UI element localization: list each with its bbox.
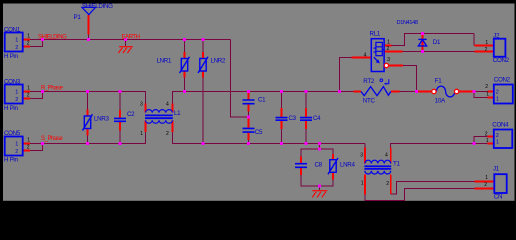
connector CON4 box xyxy=(494,130,513,149)
junction C8 rail bottom xyxy=(318,185,321,188)
junction LNR3 bottom xyxy=(86,142,89,145)
wire C4 top lead xyxy=(305,92,307,109)
pin NTC right stub xyxy=(391,91,400,93)
svg-text:10A: 10A xyxy=(435,98,446,105)
wire relay pin3 to fuse net xyxy=(403,66,416,92)
pin CON4 stubs xyxy=(488,137,494,144)
svg-text:3: 3 xyxy=(140,101,143,107)
svg-text:3: 3 xyxy=(360,152,363,158)
svg-text:2: 2 xyxy=(386,181,389,187)
thermistor RT2 temperature mark xyxy=(380,79,389,84)
junction CON5 xyxy=(41,142,44,145)
svg-text:H Pin: H Pin xyxy=(4,105,18,112)
relay RL1 switch arrow xyxy=(374,57,379,62)
junction C1/C5 midpoint xyxy=(247,115,250,118)
pin CON1-2 xyxy=(23,46,30,48)
diode D1 xyxy=(418,39,426,46)
svg-text:J1: J1 xyxy=(493,166,500,173)
relay RL1 coil xyxy=(374,42,385,55)
junction relay drop xyxy=(338,90,341,93)
svg-text:2: 2 xyxy=(485,47,488,53)
svg-text:C2: C2 xyxy=(127,111,135,118)
pin C1 stubs xyxy=(248,93,250,112)
svg-text:1: 1 xyxy=(485,175,488,181)
svg-text:2: 2 xyxy=(485,84,488,90)
wire LNR2 bottom lead crossing R_Phase xyxy=(202,78,204,143)
svg-text:T1: T1 xyxy=(393,161,400,168)
wire L1 out top xyxy=(173,92,354,104)
junction C3 top xyxy=(280,90,283,93)
inductor L1 core lines xyxy=(145,115,173,118)
junction LNR3 top xyxy=(86,90,89,93)
wire top rail down to J2 pin1 xyxy=(473,34,475,46)
wire LNR1 top lead xyxy=(184,40,186,53)
wire T1 top left lead xyxy=(364,144,366,148)
junction LNR1 top xyxy=(183,38,186,41)
earth symbol bottom xyxy=(312,191,327,198)
pin CON5-2 xyxy=(23,150,30,152)
junction C2 bottom xyxy=(119,142,122,145)
svg-text:CON2: CON2 xyxy=(493,57,510,64)
wire T1 top right to CON4 xyxy=(391,144,474,148)
junction CON4 loop xyxy=(473,142,476,145)
pin T1 bottom stubs xyxy=(365,175,391,195)
svg-text:1: 1 xyxy=(15,90,18,96)
svg-text:C1: C1 xyxy=(258,97,266,104)
wire EARTH stub xyxy=(125,40,127,47)
wire LNR3 top lead xyxy=(87,92,89,110)
junction CON3 xyxy=(41,90,44,93)
svg-text:CON4: CON4 xyxy=(492,122,509,129)
varistor LNR1 xyxy=(180,57,190,73)
relay RL1 arrow head xyxy=(376,60,380,64)
svg-text:RL1: RL1 xyxy=(370,31,381,38)
svg-text:1: 1 xyxy=(27,86,30,92)
pin RL1-4 stub xyxy=(352,57,372,59)
svg-text:1: 1 xyxy=(496,140,499,146)
svg-text:S_Phase: S_Phase xyxy=(41,136,63,142)
junction earth tap xyxy=(124,38,127,41)
pin CON3-1 xyxy=(23,91,30,93)
capacitor C8 xyxy=(295,164,307,168)
svg-text:2: 2 xyxy=(484,182,487,188)
wire NTC to fuse xyxy=(400,91,417,93)
junction C8 rail top xyxy=(318,148,321,151)
svg-text:L1: L1 xyxy=(174,110,181,117)
wire C8 branch drop xyxy=(319,144,321,150)
inductor L1 common-mode choke windings xyxy=(146,110,173,124)
svg-text:SHIELDING: SHIELDING xyxy=(38,35,67,41)
wire T1 bottom right staircase to J1 pin1 xyxy=(391,182,475,194)
svg-text:D1N4148: D1N4148 xyxy=(397,20,418,26)
svg-text:C5: C5 xyxy=(255,129,263,136)
pin D1 lead xyxy=(422,34,424,52)
svg-text:H Pin: H Pin xyxy=(4,157,18,164)
pin LNR4 stubs xyxy=(332,154,334,180)
svg-text:R_Phase: R_Phase xyxy=(41,86,64,92)
wire C1 mid lead xyxy=(248,112,250,118)
pin CON5-1 xyxy=(23,143,30,145)
connector J1 xyxy=(494,174,506,193)
svg-text:CON2: CON2 xyxy=(494,76,511,83)
transformer T1 core lines xyxy=(364,166,391,169)
junction P1/shield xyxy=(87,38,90,41)
junction LNR1 bottom xyxy=(183,90,186,93)
svg-text:2: 2 xyxy=(15,97,18,103)
pin LNR3 stubs xyxy=(87,110,89,136)
svg-text:1: 1 xyxy=(496,97,499,103)
wire R_Phase line to L1 xyxy=(43,92,146,104)
junction LNR2 bottom xyxy=(202,142,205,145)
wire C8/LNR4 bottom rail xyxy=(301,175,333,186)
wire LNR1 bottom lead xyxy=(184,78,186,92)
pin LNR2 stubs xyxy=(202,52,204,78)
svg-text:2: 2 xyxy=(485,132,488,138)
pin C5 stubs xyxy=(248,118,250,140)
pin C4 stubs xyxy=(305,108,307,129)
svg-text:CON3: CON3 xyxy=(4,78,21,85)
capacitor C5 xyxy=(243,128,255,132)
svg-text:2: 2 xyxy=(496,133,499,139)
svg-text:1: 1 xyxy=(361,180,364,186)
svg-text:2: 2 xyxy=(27,41,30,47)
junction relay pin3 drop xyxy=(415,90,418,93)
pin CON2 stubs xyxy=(488,92,494,98)
varistor LNR4 xyxy=(328,158,338,174)
pin C3 stubs xyxy=(281,108,283,129)
svg-text:1: 1 xyxy=(486,92,489,98)
svg-text:4: 4 xyxy=(364,53,367,59)
svg-text:CON5: CON5 xyxy=(4,130,21,137)
wire T1 bottom left staircase to J1 pin2 xyxy=(365,189,475,201)
junction C1 top xyxy=(247,90,250,93)
wire R_Phase bus from CON3 xyxy=(30,92,43,99)
svg-text:2: 2 xyxy=(15,149,18,155)
junction LNR2 top xyxy=(202,38,205,41)
junction C5 bottom xyxy=(247,142,250,145)
junction C3 bottom xyxy=(280,142,283,145)
svg-text:4: 4 xyxy=(166,101,169,107)
junction CON2 loop xyxy=(473,90,476,93)
pin J2 stubs xyxy=(474,46,493,52)
svg-text:2: 2 xyxy=(15,45,18,51)
capacitor C4 xyxy=(300,118,312,121)
wire C3 top lead xyxy=(281,92,283,109)
wire C2 top lead xyxy=(119,92,121,111)
wire L1 top leads maroon xyxy=(146,92,173,104)
svg-text:F1: F1 xyxy=(435,78,442,85)
svg-text:LNR1: LNR1 xyxy=(157,58,172,65)
transformer T1 windings xyxy=(365,160,391,174)
svg-text:1: 1 xyxy=(140,131,143,137)
svg-text:1: 1 xyxy=(27,34,30,40)
svg-text:NTC: NTC xyxy=(363,98,376,105)
fuse F1 left terminal circle xyxy=(432,89,436,93)
wire relay pin2 to J2 pin2 xyxy=(403,51,475,53)
pin F1 right stub xyxy=(459,91,474,93)
svg-text:2: 2 xyxy=(27,145,30,151)
connector CON5 xyxy=(5,137,23,156)
svg-text:C4: C4 xyxy=(313,115,321,122)
pin C2 stubs xyxy=(119,110,121,131)
thermistor RT2 zigzag xyxy=(361,87,391,96)
pin CON1-1 xyxy=(23,39,30,41)
connector CON1 xyxy=(5,33,23,52)
junction C8 branch top xyxy=(318,142,321,145)
pin F1 left stub xyxy=(416,91,431,93)
svg-text:C8: C8 xyxy=(315,162,323,169)
svg-text:CN: CN xyxy=(494,193,502,200)
capacitor C3 xyxy=(276,118,288,121)
wire CON4 loop xyxy=(474,137,488,144)
junction C4 bottom xyxy=(305,142,308,145)
varistor LNR3 xyxy=(83,114,93,130)
connector J2 xyxy=(494,39,506,57)
earth symbol top (EARTH) xyxy=(118,47,132,53)
capacitor C2 xyxy=(114,118,126,121)
pin RL1-1 stub xyxy=(385,45,392,47)
svg-text:H Pin: H Pin xyxy=(4,53,18,60)
svg-text:1: 1 xyxy=(485,40,488,46)
pin P1 port xyxy=(88,15,90,35)
wire C8/LNR4 top rail xyxy=(301,149,333,157)
wire shield drop to C1/C5 midpoint xyxy=(231,40,249,117)
wire C2 bottom lead xyxy=(119,131,121,144)
wire P1 drop lower part xyxy=(88,35,90,40)
wire CON2 loop xyxy=(474,92,488,98)
pin LNR1 stubs xyxy=(184,52,186,78)
pin RL1-3 stub xyxy=(389,65,403,67)
junction C2 top xyxy=(119,90,122,93)
svg-text:1: 1 xyxy=(15,38,18,44)
svg-text:2: 2 xyxy=(387,46,390,52)
svg-text:P1: P1 xyxy=(74,14,82,21)
wire SHIELDING bus y=39 xyxy=(30,39,231,41)
capacitor C1 xyxy=(243,100,255,104)
svg-text:LNR3: LNR3 xyxy=(94,115,109,122)
pin L1 top stubs xyxy=(146,104,173,113)
junction C4 top xyxy=(305,90,308,93)
thermistor arrow head xyxy=(384,82,386,85)
pin NTC left stub xyxy=(354,91,362,93)
svg-text:2: 2 xyxy=(27,93,30,99)
wire relay coil drop xyxy=(340,58,352,92)
pin C8 stubs xyxy=(300,157,302,176)
pin T1 top stubs xyxy=(365,148,391,164)
connector CON3 xyxy=(5,85,23,104)
wire CON1 pin2 link xyxy=(30,40,43,47)
wire C3 bottom lead xyxy=(281,129,283,144)
svg-text:C3: C3 xyxy=(289,115,297,122)
varistor LNR2 xyxy=(198,57,208,73)
wire S_Phase line to L1 xyxy=(43,132,146,144)
pin CON3-2 xyxy=(23,98,30,100)
svg-text:D1: D1 xyxy=(433,39,441,46)
junction CON1 xyxy=(41,38,44,41)
fuse F1 element xyxy=(436,86,454,97)
wire LNR3 bottom lead xyxy=(87,136,89,144)
wire L1 out bottom xyxy=(173,132,365,144)
svg-text:1: 1 xyxy=(387,40,390,46)
wire C4 bottom lead xyxy=(305,129,307,144)
pin J1 stubs xyxy=(475,182,495,189)
svg-text:CON1: CON1 xyxy=(4,27,21,34)
svg-text:3: 3 xyxy=(387,57,390,63)
wire bottom earth stub xyxy=(319,186,321,190)
svg-text:2: 2 xyxy=(166,131,169,137)
port P1 SHIELDING xyxy=(82,7,96,14)
svg-text:RT2: RT2 xyxy=(363,78,375,85)
wire C5 bottom lead xyxy=(248,140,250,144)
svg-text:1: 1 xyxy=(15,142,18,148)
pin RL1-2 stub xyxy=(385,51,403,53)
wire relay pin1 to top rail xyxy=(392,34,474,46)
svg-text:LNR2: LNR2 xyxy=(211,58,226,65)
fuse F1 right terminal circle xyxy=(454,89,458,93)
svg-text:J2: J2 xyxy=(493,32,500,39)
relay RL1 body xyxy=(371,39,384,72)
relay pin3 terminal circle xyxy=(384,63,388,67)
wire S_Phase bus from CON5 xyxy=(30,144,43,151)
wire LNR2 top lead xyxy=(202,40,204,53)
svg-text:2: 2 xyxy=(496,90,499,96)
svg-text:1: 1 xyxy=(486,138,489,144)
svg-text:EARTH: EARTH xyxy=(122,35,140,41)
junction D1 bottom xyxy=(421,50,424,53)
svg-text:SHIELDING: SHIELDING xyxy=(82,3,113,10)
svg-text:LNR4: LNR4 xyxy=(340,162,355,169)
wire NTC left lead xyxy=(340,91,354,93)
svg-text:1: 1 xyxy=(27,138,30,144)
pin L1 bottom stubs xyxy=(146,121,173,133)
junction D1 top xyxy=(421,32,424,35)
svg-text:4: 4 xyxy=(385,152,388,158)
connector CON2 box xyxy=(494,85,513,104)
